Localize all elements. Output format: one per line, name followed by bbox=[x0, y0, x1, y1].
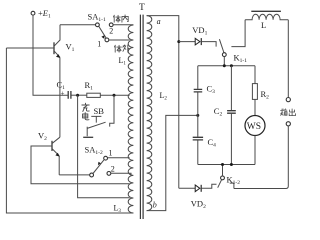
wire SA1-2 contact2 to winding bbox=[111, 173, 131, 175]
wire junction down to winding lower tap bbox=[78, 95, 130, 198]
switch SA1-1 bbox=[96, 23, 114, 42]
relay contact K1-1 bbox=[219, 20, 245, 66]
svg-text:SB: SB bbox=[94, 106, 105, 116]
transistor V1 bbox=[54, 25, 60, 138]
transistor V2 bbox=[52, 137, 60, 175]
diode VD2 bbox=[179, 184, 217, 192]
capacitor C4 bbox=[193, 137, 203, 164]
wire V1 collector to SA1-1 pole bbox=[60, 24, 95, 26]
wire output bottom to K1-2 bbox=[234, 126, 288, 189]
resistor R1 bbox=[87, 93, 101, 97]
svg-text:T: T bbox=[139, 3, 145, 13]
diode VD1 bbox=[179, 38, 216, 47]
svg-text:2: 2 bbox=[109, 27, 113, 36]
wire b bottom to center tap line bbox=[147, 115, 197, 210]
node dot C1/SB junction bbox=[76, 94, 79, 97]
output terminal bottom bbox=[286, 122, 290, 126]
resistor R2 branch bbox=[252, 66, 257, 116]
transformer core T bbox=[140, 15, 143, 219]
wire R1 to winding tap bbox=[100, 94, 129, 96]
primary winding column (L1/L3) bbox=[128, 25, 133, 213]
svg-text:WS: WS bbox=[247, 122, 261, 132]
wire SA1-2 contact1 to winding bbox=[108, 157, 130, 159]
wire contact2 (体内) to winding top bbox=[113, 24, 133, 26]
label 电 bbox=[83, 113, 89, 120]
svg-text:L: L bbox=[261, 20, 266, 30]
node dot K1-2 on bottom bus bbox=[221, 163, 224, 166]
node dot K1-1 on top bus bbox=[223, 64, 226, 67]
secondary winding L2 bbox=[147, 16, 152, 211]
motor WS bbox=[245, 116, 265, 165]
node dot R1/SB junction bbox=[113, 94, 116, 97]
wire V1 base feed bbox=[6, 47, 53, 49]
wire V2 emitter to SA1-2 pole bbox=[59, 174, 89, 176]
relay contact K1-2 bbox=[218, 165, 225, 188]
svg-text:1: 1 bbox=[97, 40, 101, 49]
wire right rail down to output bbox=[287, 20, 289, 98]
capacitor C1 bbox=[61, 90, 71, 99]
top bus bbox=[198, 65, 255, 67]
label 输出 bbox=[281, 109, 287, 116]
label 体内 bbox=[113, 15, 120, 22]
wire E1 rail down to C1 bbox=[33, 15, 68, 95]
wire a to rectifier rail bbox=[147, 16, 179, 189]
wire C1 to R1 bbox=[71, 94, 86, 96]
switch SA1-2 bbox=[90, 156, 111, 177]
push button SB bbox=[83, 95, 114, 137]
relay contact K1-2 right seat bbox=[230, 183, 234, 188]
node dot VD1 junction bbox=[177, 40, 180, 43]
capacitor C3 branch bbox=[194, 66, 203, 137]
wire V2 base loop bbox=[31, 146, 130, 184]
bottom bus bbox=[198, 164, 255, 166]
node dot C2 on top bus bbox=[230, 64, 233, 67]
wire contact1 (体外) to winding tap bbox=[109, 39, 130, 41]
output terminal top bbox=[286, 98, 290, 102]
node dot C2 on bottom bus bbox=[230, 163, 233, 166]
node dot b-tap to C3/C4 midpoint bbox=[196, 114, 199, 117]
svg-text:b: b bbox=[153, 201, 157, 210]
svg-text:2: 2 bbox=[111, 165, 115, 174]
svg-text:a: a bbox=[157, 17, 161, 26]
label 体外 bbox=[114, 45, 121, 52]
label 充 bbox=[82, 103, 89, 111]
wire left outer rail and bottom rail bbox=[6, 48, 133, 213]
capacitor C2 branch bbox=[227, 66, 236, 165]
terminal +E1 bbox=[31, 11, 35, 15]
inductor L with core bar bbox=[245, 11, 288, 19]
svg-text:1: 1 bbox=[109, 149, 113, 158]
